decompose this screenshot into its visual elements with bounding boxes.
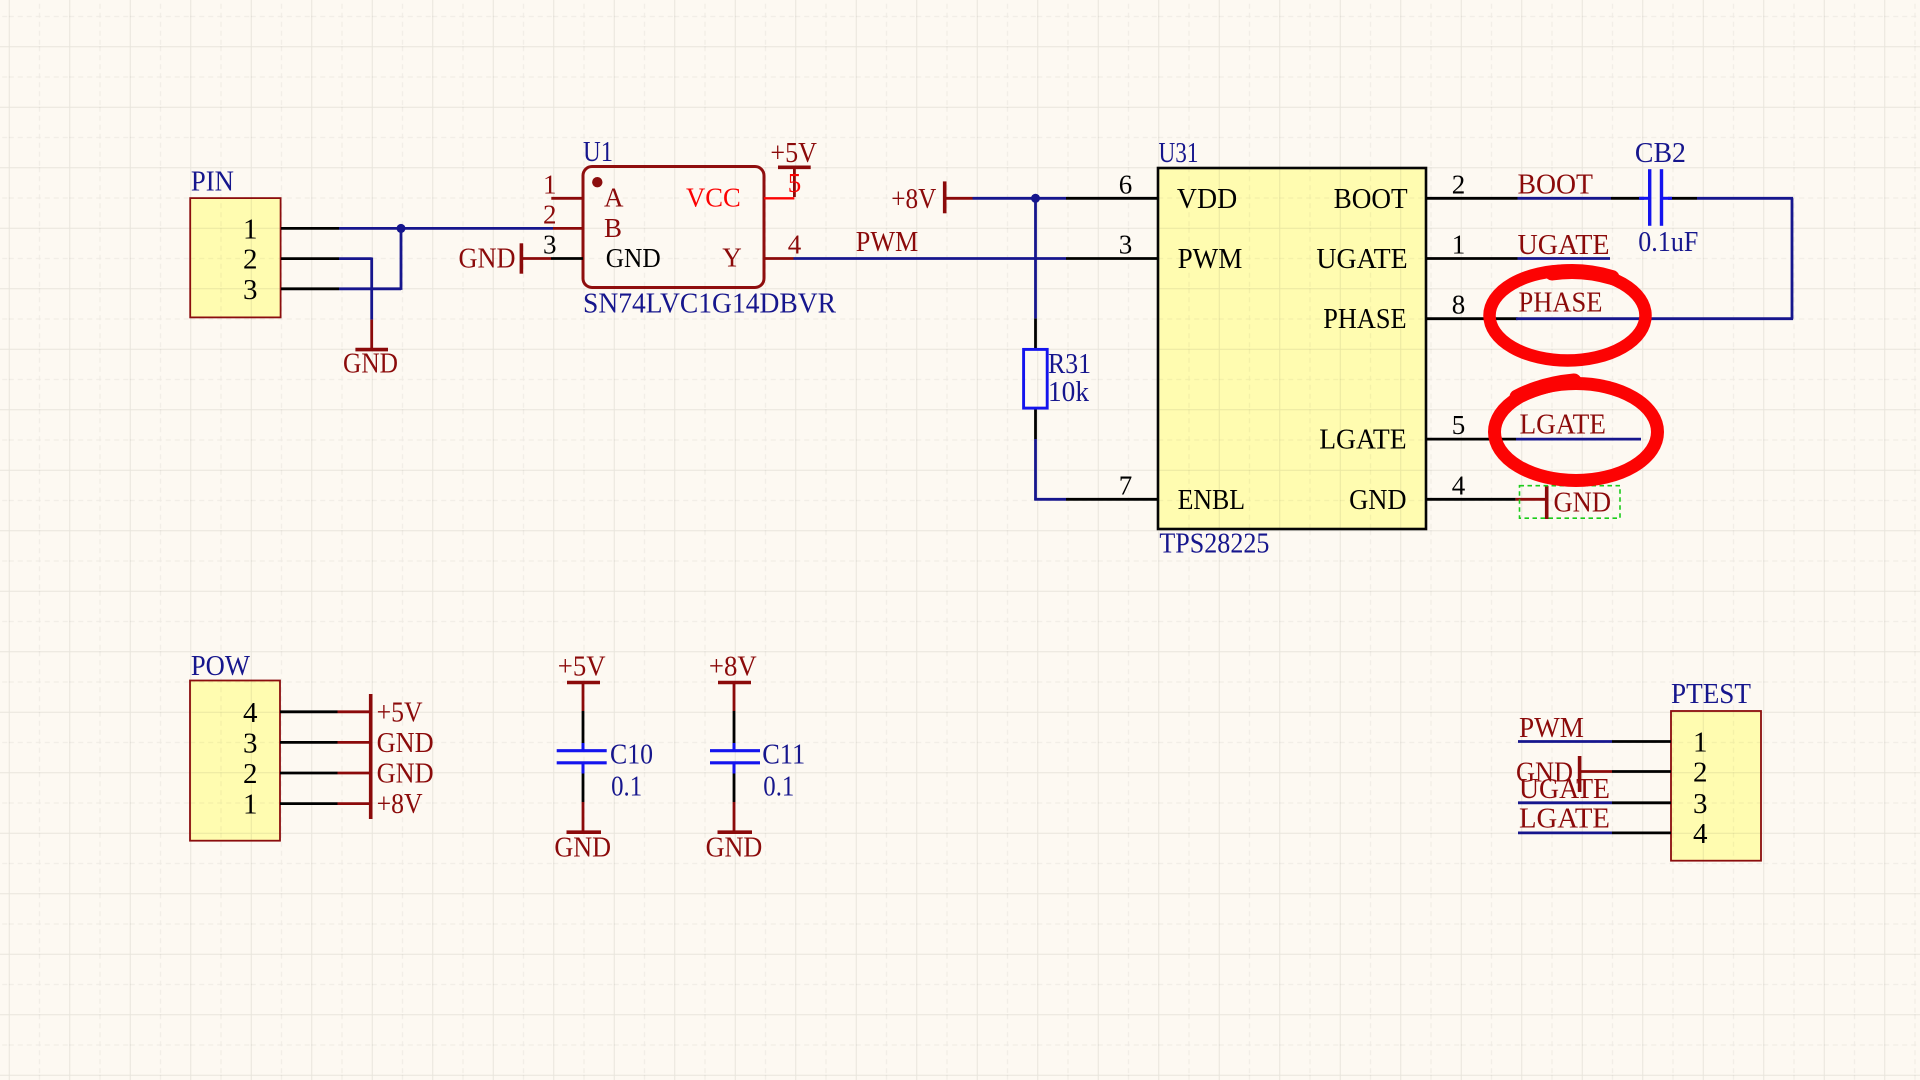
svg-text:3: 3 bbox=[543, 230, 557, 260]
svg-text:GND: GND bbox=[377, 758, 434, 790]
svg-text:3: 3 bbox=[1693, 788, 1708, 820]
svg-text:2: 2 bbox=[1452, 169, 1466, 199]
svg-text:PHASE: PHASE bbox=[1519, 286, 1603, 318]
svg-text:U1: U1 bbox=[583, 136, 613, 168]
svg-text:VDD: VDD bbox=[1177, 183, 1237, 215]
svg-text:UGATE: UGATE bbox=[1316, 243, 1407, 275]
svg-text:+5V: +5V bbox=[770, 137, 817, 169]
svg-text:5: 5 bbox=[788, 168, 802, 198]
svg-text:+5V: +5V bbox=[558, 651, 606, 683]
svg-text:SN74LVC1G14DBVR: SN74LVC1G14DBVR bbox=[583, 288, 837, 320]
svg-text:A: A bbox=[604, 182, 624, 212]
svg-text:POW: POW bbox=[191, 650, 251, 682]
svg-text:GND: GND bbox=[1349, 484, 1407, 516]
svg-text:PTEST: PTEST bbox=[1671, 678, 1751, 710]
svg-text:ENBL: ENBL bbox=[1178, 484, 1246, 516]
svg-text:GND: GND bbox=[459, 243, 516, 275]
svg-text:0.1uF: 0.1uF bbox=[1638, 226, 1698, 258]
svg-text:GND: GND bbox=[1554, 486, 1612, 518]
svg-text:1: 1 bbox=[243, 789, 258, 821]
svg-text:0.1: 0.1 bbox=[763, 771, 794, 803]
svg-text:LGATE: LGATE bbox=[1519, 803, 1610, 835]
svg-text:2: 2 bbox=[543, 199, 557, 229]
svg-text:+5V: +5V bbox=[377, 696, 423, 728]
svg-text:1: 1 bbox=[243, 213, 258, 245]
svg-text:Y: Y bbox=[722, 243, 742, 273]
svg-text:2: 2 bbox=[243, 758, 258, 790]
svg-text:0.1: 0.1 bbox=[611, 771, 642, 803]
svg-text:1: 1 bbox=[1693, 727, 1708, 759]
svg-text:GND: GND bbox=[706, 832, 763, 864]
svg-text:4: 4 bbox=[1452, 470, 1466, 500]
svg-text:4: 4 bbox=[788, 230, 802, 260]
svg-text:BOOT: BOOT bbox=[1334, 183, 1408, 215]
svg-text:PHASE: PHASE bbox=[1323, 303, 1406, 335]
svg-text:+8V: +8V bbox=[891, 183, 936, 215]
svg-text:UGATE: UGATE bbox=[1518, 229, 1610, 261]
svg-text:7: 7 bbox=[1119, 470, 1133, 500]
svg-text:PWM: PWM bbox=[1178, 243, 1243, 275]
svg-text:VCC: VCC bbox=[686, 182, 741, 212]
svg-text:PWM: PWM bbox=[856, 226, 919, 258]
svg-text:U31: U31 bbox=[1159, 137, 1199, 169]
svg-text:TPS28225: TPS28225 bbox=[1159, 528, 1269, 560]
svg-text:+8V: +8V bbox=[377, 788, 423, 820]
svg-text:LGATE: LGATE bbox=[1319, 424, 1406, 456]
svg-text:3: 3 bbox=[243, 727, 258, 759]
svg-text:GND: GND bbox=[343, 348, 398, 380]
svg-text:3: 3 bbox=[1119, 230, 1133, 260]
svg-text:C10: C10 bbox=[610, 738, 653, 770]
svg-text:1: 1 bbox=[543, 169, 557, 199]
svg-text:5: 5 bbox=[1452, 410, 1466, 440]
svg-text:GND: GND bbox=[1516, 757, 1573, 789]
svg-text:B: B bbox=[604, 213, 622, 243]
svg-text:CB2: CB2 bbox=[1635, 137, 1686, 169]
svg-text:C11: C11 bbox=[762, 738, 805, 770]
svg-text:PIN: PIN bbox=[191, 166, 234, 198]
svg-text:2: 2 bbox=[243, 244, 258, 276]
svg-text:LGATE: LGATE bbox=[1520, 409, 1607, 441]
svg-text:PWM: PWM bbox=[1519, 712, 1584, 744]
svg-text:BOOT: BOOT bbox=[1518, 168, 1594, 200]
svg-text:GND: GND bbox=[554, 832, 611, 864]
svg-text:10k: 10k bbox=[1048, 376, 1089, 408]
svg-text:6: 6 bbox=[1119, 169, 1133, 199]
svg-text:4: 4 bbox=[1693, 818, 1708, 850]
svg-text:GND: GND bbox=[606, 243, 661, 273]
svg-text:4: 4 bbox=[243, 697, 258, 729]
svg-text:+8V: +8V bbox=[709, 651, 757, 683]
svg-text:1: 1 bbox=[1452, 230, 1466, 260]
svg-text:8: 8 bbox=[1452, 290, 1466, 320]
svg-text:3: 3 bbox=[243, 274, 258, 306]
svg-text:GND: GND bbox=[377, 727, 434, 759]
svg-text:2: 2 bbox=[1693, 757, 1708, 789]
